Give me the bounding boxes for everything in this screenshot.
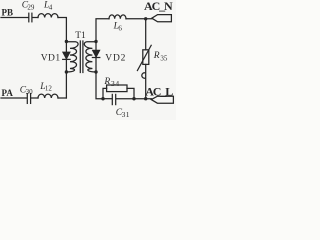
svg-text:31: 31 xyxy=(122,110,130,119)
svg-text:R: R xyxy=(103,77,110,87)
svg-text:VD1: VD1 xyxy=(41,54,61,64)
svg-text:6: 6 xyxy=(118,25,122,33)
svg-text:R: R xyxy=(153,51,160,61)
svg-text:35: 35 xyxy=(160,54,168,62)
svg-text:AC_N: AC_N xyxy=(144,0,173,13)
svg-text:VD2: VD2 xyxy=(105,53,126,63)
svg-text:34: 34 xyxy=(111,79,120,88)
svg-text:PA: PA xyxy=(2,88,14,98)
svg-text:PB: PB xyxy=(2,7,14,17)
svg-text:T1: T1 xyxy=(75,31,86,41)
svg-text:12: 12 xyxy=(45,85,53,93)
svg-text:4: 4 xyxy=(49,4,53,12)
svg-text:AC_L: AC_L xyxy=(145,84,173,98)
svg-text:30: 30 xyxy=(26,88,33,96)
svg-text:29: 29 xyxy=(27,4,35,12)
